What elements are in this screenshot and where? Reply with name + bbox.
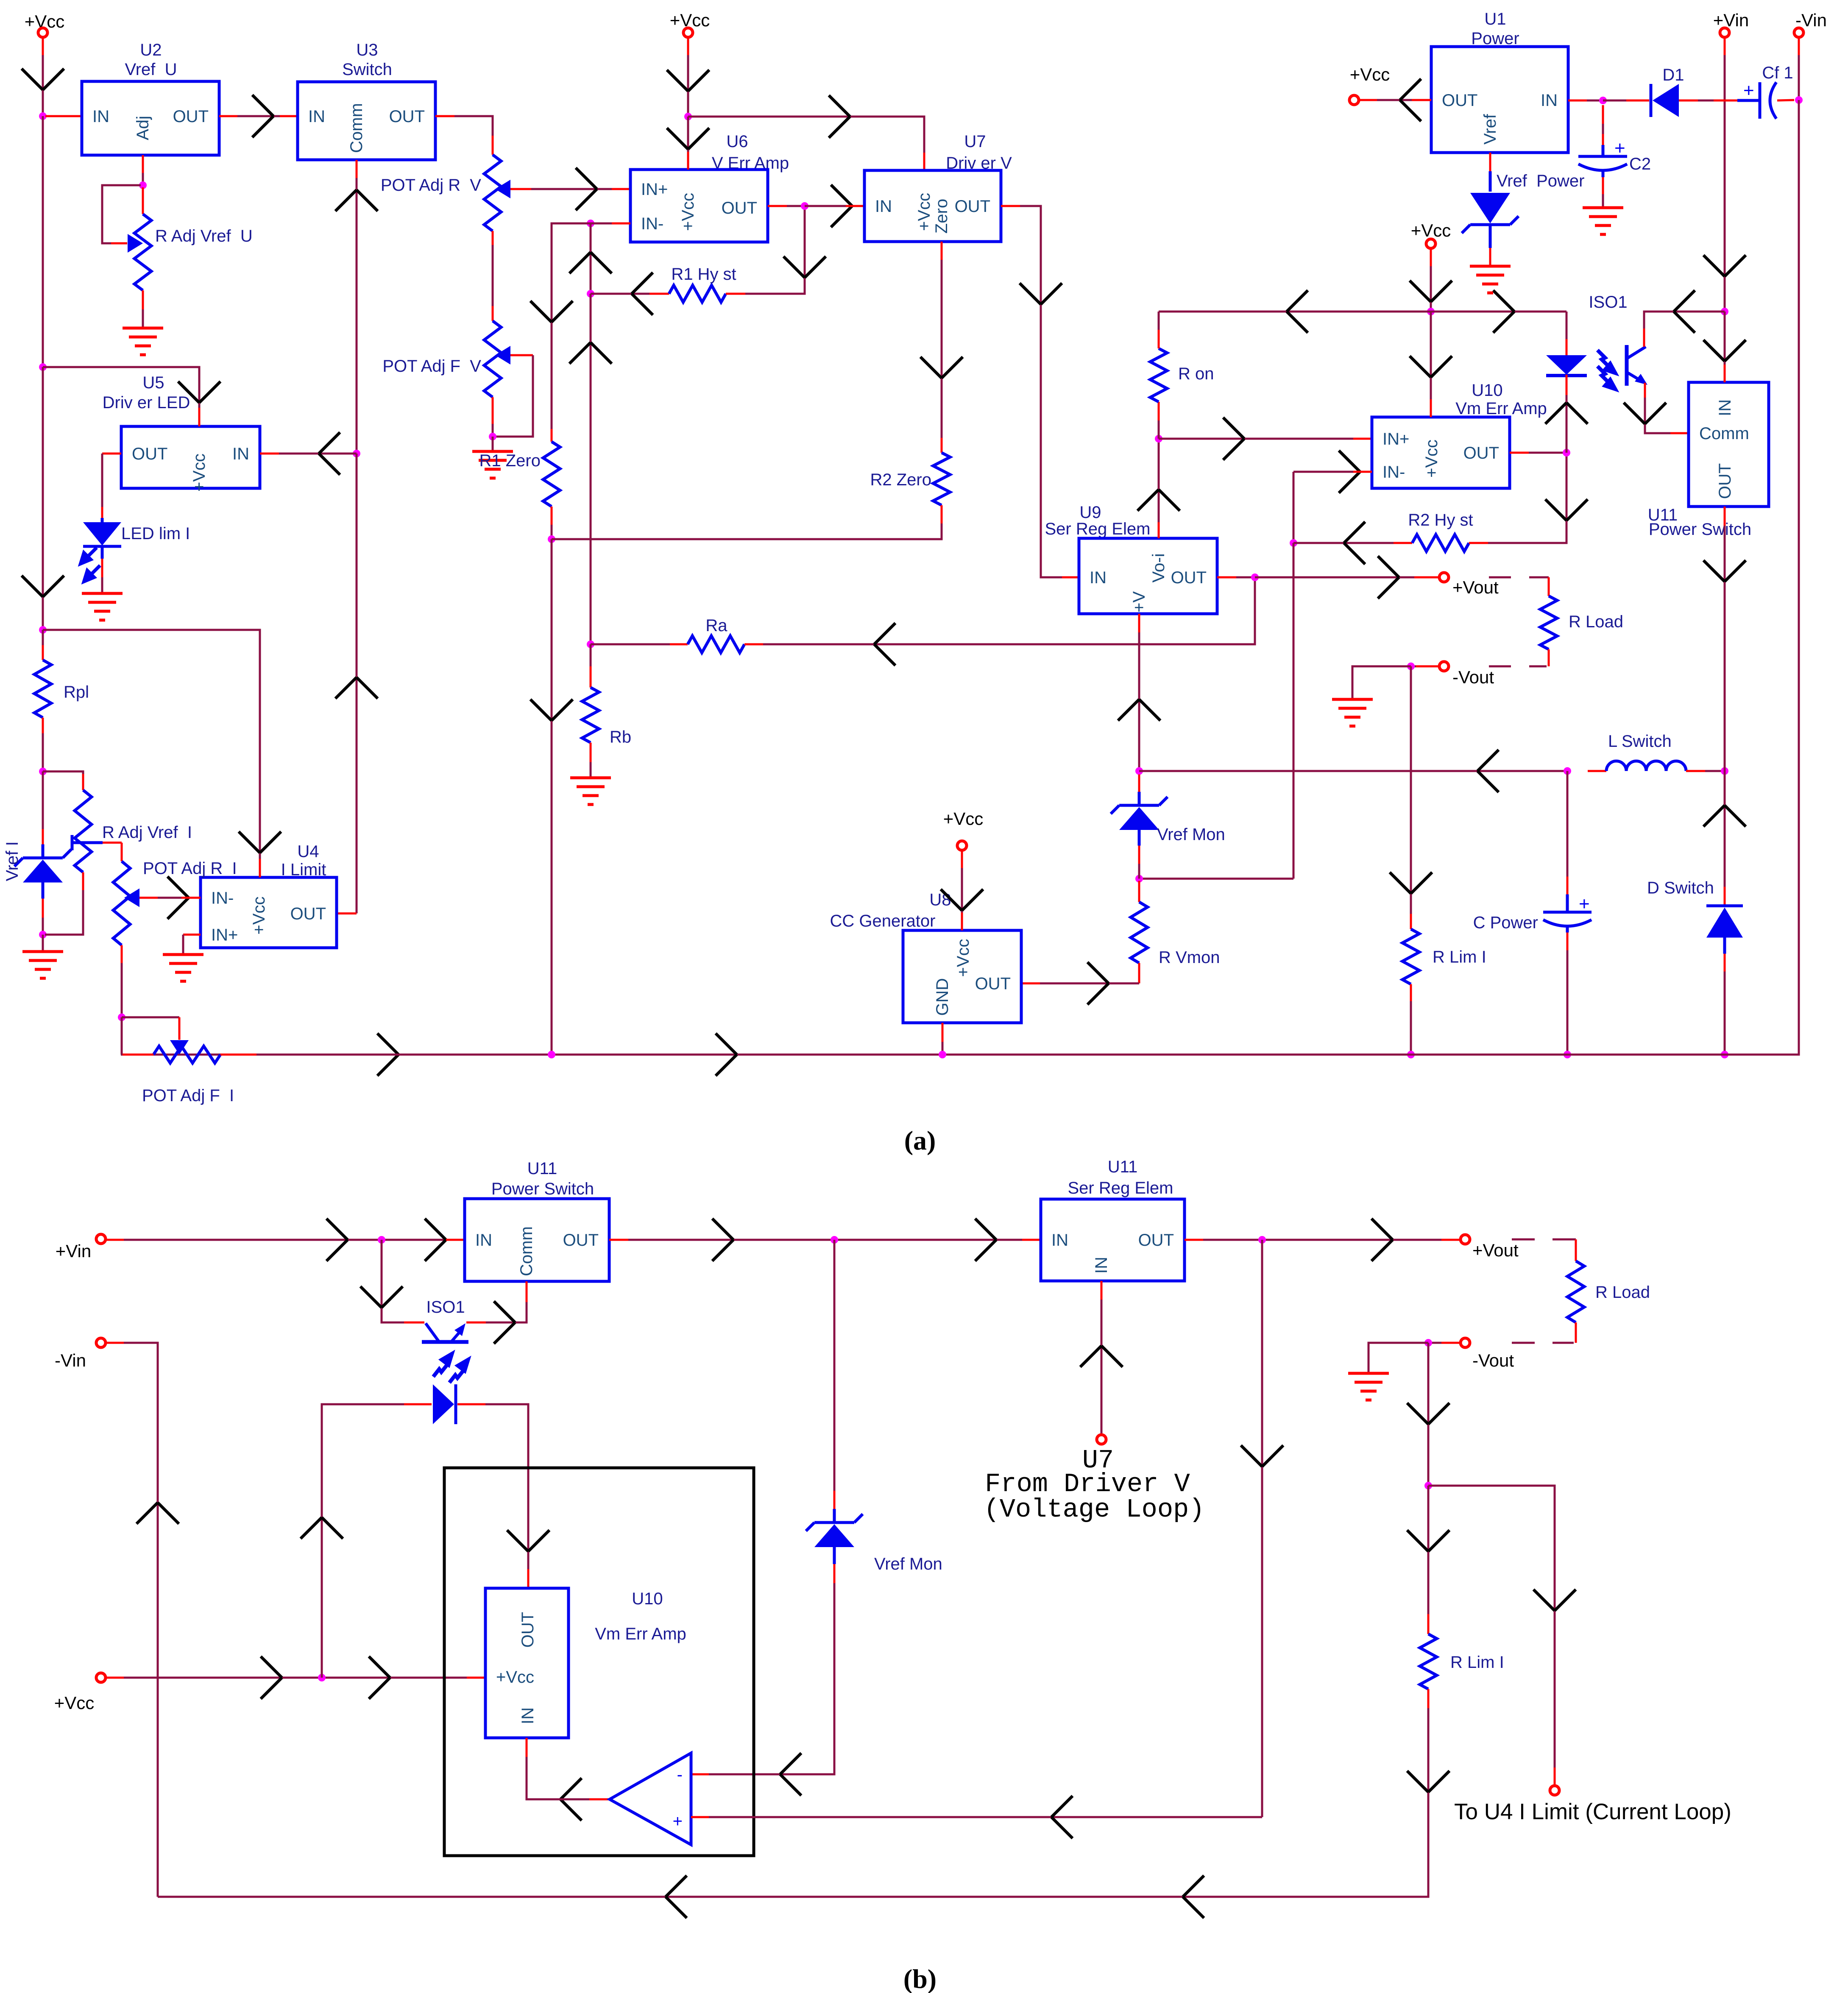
- wire IN- node stub: [591, 223, 612, 225]
- output terminal -Vout (b): [1461, 1338, 1470, 1347]
- wire R Lim I bottom red stub: [1410, 984, 1412, 1001]
- wire +V down to switch node: [1138, 632, 1140, 771]
- port U6 IN+: [641, 180, 668, 199]
- wire U10b IN red stub: [526, 1738, 528, 1757]
- svg-text:Power Switch: Power Switch: [1649, 520, 1751, 539]
- wire U9 OUT to +Vout: [1255, 576, 1414, 579]
- wire R Load bottom red: [1548, 649, 1550, 666]
- ground (R Adj Vref U): [123, 328, 163, 355]
- resistor R1 Zero: [543, 442, 560, 507]
- wire U6 IN- red stub: [612, 223, 630, 225]
- svg-text:U3: U3: [356, 41, 378, 59]
- arrow +Vin to ISO1: [1674, 290, 1695, 333]
- wire +Vcc to U1 OUT: [1377, 99, 1412, 101]
- block U9 Ser Reg Elem: [1079, 538, 1217, 614]
- wire U11PS IN red stub: [446, 1239, 465, 1241]
- wire OUT stub to node: [787, 205, 805, 207]
- arrow op-amp plus: [1051, 1796, 1073, 1838]
- wire U3 OUT red stub: [435, 115, 454, 117]
- svg-text:+Vcc: +Vcc: [915, 193, 934, 231]
- wire ISO1 LED anode: [1566, 312, 1568, 339]
- ground (Rb): [570, 778, 611, 804]
- wire R1 Zero bottom red stub: [551, 507, 553, 525]
- resistor R2 Hyst: [1412, 534, 1469, 551]
- label R Load: [1569, 612, 1623, 631]
- arrow on Comm wire: [335, 190, 378, 211]
- label +Vcc (b): [54, 1693, 95, 1713]
- power terminal +Vcc (U8): [957, 841, 967, 850]
- label U8: [929, 891, 951, 909]
- wire node to ground: [42, 935, 44, 952]
- wire R on node up: [1158, 420, 1160, 439]
- port U8 +Vcc: [954, 939, 973, 977]
- label C2: [1629, 155, 1651, 173]
- svg-text:D1: D1: [1662, 66, 1684, 84]
- wire pot F I right red: [220, 1054, 256, 1056]
- svg-text:R2 Hy st: R2 Hy st: [1408, 511, 1473, 529]
- resistor Rpl: [34, 660, 51, 718]
- svg-text:+Vout: +Vout: [1452, 577, 1499, 597]
- port U9 Vo-i: [1149, 554, 1168, 583]
- label POT Adj F I: [142, 1086, 234, 1105]
- svg-text:U1: U1: [1484, 10, 1506, 28]
- label Vm Err Amp (b): [595, 1625, 686, 1643]
- wire R2 Hyst to U10 OUT node: [1488, 453, 1566, 543]
- arrow ISO1 emitter: [1624, 403, 1666, 424]
- wire R on node to U10 IN+: [1159, 438, 1353, 440]
- wire crossing +Vin red: [1714, 100, 1737, 102]
- node R1 Zero / R2 Zero: [548, 535, 555, 543]
- svg-text:+: +: [1579, 894, 1590, 914]
- zener diode Vref Mon (b): [806, 1509, 863, 1564]
- svg-text:OUT: OUT: [975, 974, 1011, 993]
- wire D1 anode red stub: [1679, 100, 1698, 102]
- wire R on bottom red stub: [1158, 402, 1160, 420]
- wire node down to bottom rail: [551, 539, 553, 1055]
- wire U9 +V red stub: [1138, 614, 1140, 632]
- wire C2 top red stub: [1602, 105, 1604, 124]
- wire U10b OUT red stub: [527, 1569, 530, 1588]
- svg-text:R Load: R Load: [1569, 612, 1623, 631]
- svg-text:R2 Zero: R2 Zero: [870, 470, 932, 489]
- wire U2 Adj pin red stub: [142, 155, 144, 173]
- block U1 Power: [1431, 47, 1568, 153]
- block U4 I Limit: [201, 877, 337, 948]
- svg-text:C Power: C Power: [1473, 913, 1538, 932]
- wire U2 IN pin stub: [45, 115, 82, 117]
- svg-text:Rpl: Rpl: [64, 683, 89, 701]
- label Ser Reg Elem: [1045, 520, 1151, 538]
- port U3 OUT: [389, 107, 425, 126]
- wire +Vcc branch to U4: [43, 630, 260, 859]
- svg-text:IN-: IN-: [641, 214, 663, 233]
- wire R Vmon to U8 OUT: [1040, 983, 1139, 985]
- arrow +Vin b 1: [326, 1219, 348, 1261]
- arrow sense column: [1241, 1445, 1283, 1467]
- port U10 IN+: [1383, 430, 1409, 448]
- wire diode branch up: [322, 1404, 404, 1678]
- wire ISO1 emitter to U11 Comm: [1645, 398, 1670, 433]
- port U4 +Vcc: [250, 896, 268, 935]
- arrow +Vcc2 to U7: [829, 95, 850, 138]
- wire IN- node to R1 Zero column: [552, 223, 591, 429]
- arrow U2 to U3: [252, 95, 273, 137]
- svg-text:Zero: Zero: [932, 199, 951, 234]
- svg-text:IN: IN: [1716, 399, 1734, 416]
- port U9 IN: [1090, 568, 1107, 587]
- caption (b): [903, 1964, 937, 1993]
- arrow bottom rail 2: [716, 1033, 737, 1076]
- node +Vcc / U2 IN: [39, 112, 47, 120]
- arrow +Vcc to U4: [239, 832, 281, 853]
- wire C Power top: [1566, 771, 1569, 877]
- wire +Vcc b stub: [106, 1677, 124, 1679]
- wire +Vout b dash 2: [1553, 1239, 1574, 1241]
- svg-text:U7: U7: [964, 132, 986, 151]
- svg-text:+Vout: +Vout: [1472, 1240, 1519, 1260]
- label Ser Reg Elem (b): [1068, 1179, 1173, 1197]
- svg-text:OUT: OUT: [290, 905, 326, 923]
- input terminal -Vin: [1794, 28, 1803, 37]
- wire -Vout b dash 2: [1512, 1342, 1535, 1344]
- svg-text:+Vcc: +Vcc: [1422, 440, 1441, 478]
- wire U2 Adj down: [142, 173, 144, 185]
- wire L Switch left red stub: [1588, 770, 1606, 772]
- label +Vcc (monitor): [1411, 220, 1451, 240]
- wire R Lim I b top red: [1427, 1614, 1430, 1634]
- arrow +Vcc to U5: [178, 381, 220, 403]
- port U2 Adj: [134, 116, 152, 140]
- wire +Vin b stub: [106, 1239, 124, 1241]
- input terminal +Vin (b): [96, 1234, 106, 1244]
- svg-text:Driv er LED: Driv er LED: [103, 393, 190, 412]
- svg-text:OUT: OUT: [1716, 463, 1734, 499]
- label +Vout: [1452, 577, 1499, 597]
- arrow U6 OUT to U7: [831, 185, 852, 227]
- arrow Comm to U5 IN: [319, 432, 340, 475]
- label Switch: [342, 60, 392, 79]
- arrow on +Vcc rail: [22, 69, 64, 90]
- ground (-Vout): [1332, 699, 1373, 726]
- wire U5 IN red stub: [260, 453, 279, 455]
- svg-text:L Switch: L Switch: [1608, 732, 1672, 751]
- wire Vref Mon top red stub: [1138, 774, 1140, 792]
- wire U6 IN+ red stub: [612, 188, 630, 190]
- port U10b +Vcc: [496, 1668, 534, 1687]
- port U5 IN: [232, 445, 249, 463]
- wire wiper corner red: [121, 843, 123, 861]
- svg-text:C2: C2: [1629, 155, 1651, 173]
- wire pot R V wiper to U6 IN+: [531, 188, 612, 190]
- svg-text:Comm: Comm: [1699, 424, 1749, 443]
- wire D Switch to bottom rail: [1724, 971, 1726, 1055]
- arrow Ra column up: [569, 342, 612, 364]
- svg-text:IN: IN: [1092, 1257, 1111, 1274]
- port U11a OUT: [1716, 463, 1734, 499]
- wire -Vout stub to node: [1411, 665, 1416, 668]
- arrow +Vcc b 1: [261, 1656, 282, 1699]
- wire U3 Comm red stub: [356, 160, 358, 178]
- wire op-amp minus red stub: [691, 1773, 709, 1776]
- svg-text:R Lim I: R Lim I: [1433, 948, 1486, 966]
- label R Adj Vref U: [155, 227, 253, 245]
- wire Rb to ground: [590, 762, 592, 778]
- svg-text:U10: U10: [1472, 381, 1502, 400]
- arrow to U10 IN+: [1223, 418, 1244, 460]
- wire junction to Rpl top: [42, 630, 44, 645]
- svg-text:+Vcc: +Vcc: [1411, 220, 1451, 240]
- ground (-Vout b): [1348, 1373, 1389, 1400]
- svg-text:+Vin: +Vin: [56, 1241, 91, 1261]
- port U8 GND: [933, 978, 952, 1016]
- port U7 +Vcc: [915, 193, 934, 231]
- wire Adj node red into pot: [142, 187, 144, 214]
- port U5 +Vcc: [190, 454, 209, 492]
- label U7 (b): [1082, 1445, 1114, 1475]
- svg-text:Vref Mon: Vref Mon: [1157, 825, 1225, 844]
- wire C Power bottom red stub: [1566, 932, 1569, 950]
- label LED lim I: [121, 524, 190, 543]
- wire pot R I bottom red: [121, 945, 123, 963]
- wire Vo-i up to R on node: [1158, 439, 1160, 522]
- wire ISO1 b collector red: [404, 1322, 424, 1324]
- port U4 IN+: [211, 926, 238, 944]
- svg-text:GND: GND: [933, 978, 952, 1016]
- node C Power / bottom rail: [1564, 1051, 1571, 1058]
- wire R Vmon top red stub: [1138, 881, 1140, 902]
- port U6 +Vcc: [679, 193, 697, 231]
- svg-text:U4: U4: [297, 842, 319, 861]
- wire LED to ground: [101, 577, 103, 593]
- diode (b feedback): [433, 1384, 456, 1424]
- label +Vout (b): [1472, 1240, 1519, 1260]
- resistor R Lim I: [1402, 929, 1419, 984]
- wire pot top red stub: [492, 136, 494, 155]
- wire R on link to +Vcc line: [1159, 311, 1431, 313]
- wire Rpl to Vref I node: [42, 733, 44, 771]
- arrow op-amp minus: [780, 1753, 801, 1795]
- wire -Vout b dash 1: [1553, 1342, 1574, 1344]
- arrow ISO1 LED wire: [1545, 403, 1588, 424]
- power terminal +Vcc (b): [96, 1673, 106, 1682]
- wire U11a OUT to L Switch: [1724, 526, 1726, 771]
- wire U7 +Vcc red stub: [923, 153, 925, 170]
- label -Vout (b): [1472, 1350, 1514, 1370]
- frame U10 model box (b): [444, 1468, 754, 1856]
- node U11PS OUT / Vref Mon (b): [831, 1236, 838, 1244]
- wire IN- column: [1293, 472, 1295, 543]
- ground (left rail): [22, 952, 63, 978]
- diode D1: [1651, 84, 1679, 117]
- node L Switch / C Power: [1564, 767, 1571, 775]
- svg-text:OUT: OUT: [1463, 444, 1499, 462]
- power terminal +Vcc (monitor): [1426, 239, 1435, 248]
- block U7 Driver V: [864, 170, 1001, 242]
- label R Adj Vref I: [102, 823, 192, 842]
- potentiometer R Adj Vref I: [72, 790, 103, 872]
- wire switch node rail: [1139, 770, 1567, 772]
- svg-text:R Load: R Load: [1595, 1283, 1650, 1302]
- label Rb: [610, 728, 631, 746]
- label Cf1: [1762, 64, 1793, 82]
- zener diode Vref Mon: [1111, 792, 1168, 846]
- resistor R Vmon: [1131, 902, 1148, 963]
- wire -Vout b red stub: [1441, 1342, 1460, 1344]
- port U3 IN: [308, 107, 325, 126]
- wire LED cathode red stub: [101, 559, 103, 577]
- resistor R2 Zero: [933, 453, 950, 505]
- arrow +Vcc U8: [941, 889, 983, 910]
- wire D1 cathode red stub: [1626, 100, 1649, 102]
- terminal To U4 I Limit: [1550, 1786, 1559, 1795]
- svg-text:OUT: OUT: [173, 107, 209, 126]
- wire -Vout b node link: [1428, 1342, 1441, 1344]
- svg-text:+Vcc: +Vcc: [954, 939, 973, 977]
- wire U3 OUT to POT Adj R V: [454, 116, 493, 136]
- potentiometer POT Adj F I: [153, 1040, 220, 1063]
- label R Lim I (b): [1450, 1653, 1504, 1672]
- wire D Switch top: [1724, 771, 1726, 887]
- arrow OUT b 2: [975, 1219, 996, 1261]
- svg-text:Vref Power: Vref Power: [1497, 172, 1584, 190]
- label +Vcc (U8): [943, 809, 984, 829]
- wire U3 Comm down to U5 IN node: [356, 178, 358, 454]
- svg-text:OUT: OUT: [1442, 91, 1477, 110]
- arrow to bottom rail: [530, 699, 573, 721]
- block U11 Ser Reg Elem (b): [1041, 1199, 1185, 1281]
- block U10 Vm Err Amp: [1372, 417, 1510, 488]
- svg-text:+V: +V: [1130, 591, 1148, 612]
- wire -Vout b to ground: [1369, 1343, 1428, 1373]
- svg-text:ISO1: ISO1: [426, 1298, 465, 1317]
- power terminal +Vcc (U1 out): [1349, 95, 1359, 105]
- wire sense node down: [1427, 1486, 1430, 1614]
- node POT Adj F V bottom: [489, 433, 496, 440]
- arrow R1 Hyst to node: [632, 273, 653, 315]
- node U6 IN-: [587, 220, 594, 227]
- wire U11PS OUT to U11SRE IN: [628, 1239, 1022, 1241]
- port U11PS OUT: [563, 1231, 599, 1250]
- wire C2 upper: [1602, 124, 1604, 134]
- label U3: [356, 41, 378, 59]
- port U11a IN: [1716, 399, 1734, 416]
- power terminal +Vcc (error amps): [683, 28, 693, 37]
- resistor R Lim I (b): [1420, 1634, 1437, 1689]
- wire R2 Hyst left red stub: [1394, 542, 1412, 544]
- resistor Ra: [688, 636, 744, 653]
- svg-text:U10: U10: [632, 1589, 663, 1608]
- svg-text:Power Switch: Power Switch: [491, 1180, 594, 1198]
- wire Comm node down to U4 OUT: [356, 454, 358, 913]
- wire +Vcc terminal stub: [42, 37, 44, 55]
- svg-text:OUT: OUT: [563, 1231, 599, 1250]
- svg-text:LED lim I: LED lim I: [121, 524, 190, 543]
- node +Vcc / U5 branch: [39, 363, 47, 371]
- label ISO1 (a): [1589, 293, 1627, 312]
- port U5 OUT: [132, 445, 167, 463]
- wire C Power to bottom rail: [1566, 950, 1569, 1055]
- svg-text:IN: IN: [1090, 568, 1107, 587]
- wire U8 GND to bottom rail: [942, 1042, 944, 1055]
- node POT Adj F I: [118, 1013, 125, 1021]
- wire +Vout b dash 1: [1512, 1239, 1535, 1241]
- port U10b IN: [518, 1707, 537, 1724]
- wire Rpl bottom red stub: [42, 718, 44, 733]
- wire U10b +Vcc red stub: [467, 1677, 485, 1679]
- wire R Adj Vref I top red: [82, 774, 84, 790]
- ground (C2): [1583, 208, 1623, 234]
- label Driver V: [946, 154, 1012, 173]
- wire R Adj Vref I return: [45, 890, 83, 935]
- wire op-amp plus to sense column: [709, 1816, 1262, 1818]
- label V Err Amp: [712, 154, 789, 173]
- arrow +Vin column: [1703, 255, 1746, 276]
- node +Vcc4 branch: [1427, 308, 1435, 315]
- wire -Vout node down: [1410, 666, 1412, 914]
- port U7 IN: [875, 197, 892, 216]
- arrow below R Lim I b: [1407, 1771, 1449, 1792]
- svg-text:IN+: IN+: [211, 926, 238, 944]
- wire U11PS OUT red stub: [609, 1239, 628, 1241]
- wire +Vin column: [1724, 55, 1726, 312]
- arrow wiper to IN+: [576, 168, 597, 210]
- wire R Lim I top red stub: [1410, 914, 1412, 929]
- arrow Vo-i wire: [1137, 490, 1180, 511]
- capacitor Cf1: [1737, 80, 1776, 119]
- svg-text:U2: U2: [140, 41, 162, 59]
- svg-text:U11: U11: [1108, 1158, 1137, 1176]
- diode D Switch: [1706, 906, 1743, 954]
- svg-text:+Vcc: +Vcc: [190, 454, 209, 492]
- wire U4 OUT red stub: [337, 913, 357, 915]
- input terminal +Vin: [1720, 28, 1729, 37]
- svg-text:POT Adj F V: POT Adj F V: [382, 357, 481, 376]
- wire Cf1 right red stub: [1777, 100, 1794, 100]
- wire Zero down to R2 Zero: [941, 260, 943, 438]
- label Ra: [705, 616, 727, 635]
- arrow -Vout column: [1390, 872, 1432, 894]
- svg-text:+Vcc: +Vcc: [679, 193, 697, 231]
- wire U5 OUT down to LED: [101, 454, 103, 507]
- svg-text:R1 Hy st: R1 Hy st: [671, 265, 736, 284]
- svg-text:OUT: OUT: [132, 445, 167, 463]
- arrow D Switch column: [1703, 805, 1746, 827]
- wire R Vmon bottom red: [1138, 963, 1140, 983]
- label U11 (b PS): [527, 1159, 557, 1178]
- wire between pots: [492, 245, 494, 306]
- node L Switch / D Switch: [1721, 767, 1728, 775]
- svg-text:+Vin: +Vin: [1713, 10, 1749, 30]
- svg-text:R on: R on: [1178, 365, 1214, 383]
- node sense divider (b): [1424, 1482, 1432, 1489]
- label U4: [297, 842, 319, 861]
- wire C2 red 2: [1602, 134, 1604, 145]
- label +Vcc (error amps): [670, 10, 710, 30]
- optocoupler ISO1 phototransistor (b): [422, 1323, 468, 1383]
- wire node to D1: [1603, 100, 1626, 102]
- wire U9 IN red stub: [1062, 576, 1079, 579]
- port U11PS IN: [475, 1231, 492, 1250]
- svg-text:U11: U11: [527, 1159, 557, 1178]
- wire R Load b top red: [1575, 1239, 1577, 1261]
- arrow IN- feedback up: [569, 252, 612, 273]
- block U11 Power Switch (a): [1689, 382, 1769, 507]
- label I Limit: [281, 860, 326, 879]
- wire Vref Mon b top: [833, 1240, 836, 1491]
- port U11SRE OUT: [1138, 1231, 1174, 1250]
- inductor L Switch: [1606, 761, 1686, 771]
- wire U9 Vo-i red stub: [1158, 522, 1160, 538]
